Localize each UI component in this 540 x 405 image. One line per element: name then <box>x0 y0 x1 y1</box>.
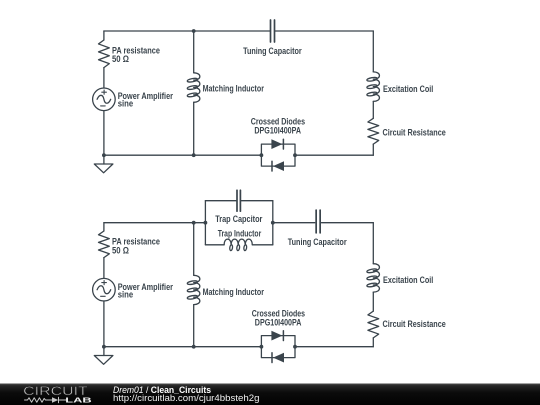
svg-text:sine: sine <box>118 98 134 108</box>
svg-text:sine: sine <box>118 290 134 300</box>
svg-text:DPG10I400PA: DPG10I400PA <box>255 318 302 328</box>
svg-text:Circuit Resistance: Circuit Resistance <box>383 319 446 329</box>
svg-text:Matching Inductor: Matching Inductor <box>203 83 265 93</box>
svg-text:http://circuitlab.com/cjur4bbs: http://circuitlab.com/cjur4bbsteh2g <box>113 393 260 403</box>
svg-text:50 Ω: 50 Ω <box>112 54 129 64</box>
svg-text:LAB: LAB <box>65 395 92 404</box>
svg-text:Tuning Capacitor: Tuning Capacitor <box>243 46 302 56</box>
svg-text:Circuit Resistance: Circuit Resistance <box>383 128 446 138</box>
svg-text:Tuning Capacitor: Tuning Capacitor <box>288 237 347 247</box>
svg-text:Excitation Coil: Excitation Coil <box>383 275 433 285</box>
svg-text:Trap Capcitor: Trap Capcitor <box>215 214 263 224</box>
svg-text:DPG10I400PA: DPG10I400PA <box>254 126 301 136</box>
svg-text:Matching Inductor: Matching Inductor <box>203 287 265 297</box>
svg-text:Trap Inductor: Trap Inductor <box>218 228 262 238</box>
svg-text:50 Ω: 50 Ω <box>112 245 129 255</box>
svg-text:Excitation Coil: Excitation Coil <box>383 84 433 94</box>
